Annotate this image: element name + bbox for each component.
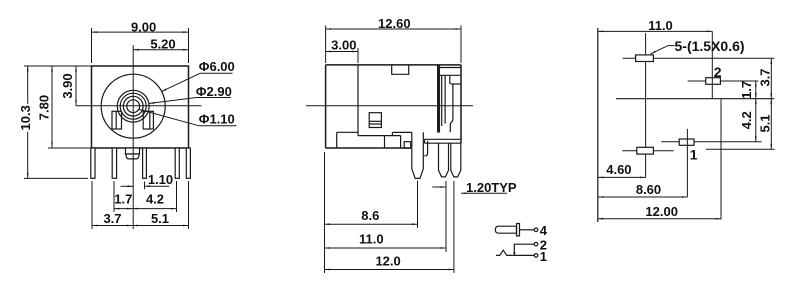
pad 2 row line [688,80,759,82]
dimension 11.0 layout [598,30,713,32]
svg-text:1.7: 1.7 [114,192,132,207]
svg-text:12.00: 12.00 [645,204,678,219]
dimension 10.3 [24,66,92,178]
dimension 7.80 [48,66,92,148]
inner ring circle [120,93,146,119]
dimension 1.10 (center to pin) [121,182,170,190]
svg-text:4: 4 [540,223,548,238]
dimension 12.0 [325,181,454,273]
small step block under ledge [404,142,411,149]
svg-text:4.60: 4.60 [606,162,631,177]
schematic pin 4 terminal circle [534,228,538,232]
side window [369,113,381,128]
centerline vertical front view [132,45,134,229]
text 10.3 rotated [18,104,33,132]
pad 2 column [711,31,713,98]
svg-text:3.7: 3.7 [103,211,121,226]
dimension 8.60 [598,196,688,198]
svg-text:5.1: 5.1 [151,211,169,226]
svg-text:3.00: 3.00 [331,37,356,52]
schematic center pin (bullet) [495,226,516,233]
schematic contact junction [513,253,516,256]
dimension 1.7 and 4.2 [114,181,177,212]
right contact tab [143,111,153,129]
dimension 3.7 and 5.1 [92,181,189,229]
barrel opening circle D6.00 [101,74,165,138]
pad 1 column [686,129,688,197]
layout left rail [597,28,599,222]
schematic pin 2 lead [514,244,534,253]
schematic pin 4 lead [520,229,535,231]
svg-text:5-(1.5X0.6): 5-(1.5X0.6) [675,38,745,54]
side pin 2 [439,143,449,177]
dimension chain 1.7 / 4.2 [755,81,757,142]
svg-text:1: 1 [690,147,698,163]
dimension 1.20TYP arrows [432,187,507,193]
terminal base lines [425,138,462,140]
pad 1 row line [661,141,761,143]
svg-text:1.20TYP: 1.20TYP [466,180,517,195]
left contact tab [112,111,122,129]
dimension 9.00 [92,28,189,63]
dimension 12.60 [326,26,461,64]
svg-text:4.2: 4.2 [739,111,754,129]
leader D6.00 [161,73,232,91]
leader D2.90 [149,98,231,104]
dimension 11.0 [325,181,447,252]
text 4.2 layout rotated [739,111,754,129]
dimension 3.90 [75,66,77,106]
back contact plate (thick) [437,65,440,132]
pad E row line [622,149,774,150]
svg-text:1: 1 [540,249,547,264]
svg-text:12.60: 12.60 [378,16,411,31]
text 1.7 layout rotated [739,81,754,99]
dimension 5.20 [133,49,188,51]
layout 12.00 extension vertical [720,99,722,220]
contact leaf beside center pin [424,141,427,156]
svg-text:8.6: 8.6 [361,208,379,223]
svg-text:1.10: 1.10 [148,172,173,187]
dimension chain 3.7 / 5.1 [770,58,772,149]
text 5.1 layout rotated [758,114,773,132]
layout center rail [616,98,774,100]
side pin 3 [451,143,461,177]
dimension 8.6 [325,152,418,273]
leader 5-(1.5X0.6) [651,46,675,54]
svg-text:3.7: 3.7 [758,68,773,86]
schematic pin 1 terminal circle [534,254,538,258]
jack body outline front view [92,66,189,148]
text 3.90 rotated [60,72,75,100]
body bottom ledge [337,131,358,133]
svg-text:10.3: 10.3 [18,105,33,130]
svg-text:11.0: 11.0 [359,232,384,247]
svg-text:2: 2 [714,64,722,80]
svg-text:Φ2.90: Φ2.90 [196,84,232,99]
front block divider [357,65,359,136]
pin 1 front [91,148,95,178]
pad E (bottom left) [637,147,654,154]
svg-text:Φ6.00: Φ6.00 [199,59,235,74]
centerline side view [306,105,473,107]
leader D1.10 [139,109,237,125]
svg-text:5.1: 5.1 [758,114,773,132]
center pin side view [412,132,424,178]
pad column vertical [645,33,647,177]
svg-text:5.20: 5.20 [150,36,175,51]
top notch [392,65,409,74]
back contact details [440,67,461,69]
pad 1 [679,139,694,145]
dimension 3.00 [326,48,358,63]
svg-text:Φ1.10: Φ1.10 [199,112,235,127]
pin 6 front [186,148,190,178]
inner sleeve circle D2.90 [117,90,149,122]
layout row A line [623,57,775,59]
svg-text:4.2: 4.2 [146,192,164,207]
svg-text:12.0: 12.0 [375,253,400,268]
svg-text:1.7: 1.7 [739,81,754,99]
svg-text:11.0: 11.0 [648,18,673,33]
pad 2 [706,78,721,85]
svg-text:8.60: 8.60 [636,182,661,197]
side body outline [326,65,461,148]
centerline horizontal front view [76,105,202,107]
pad A (top left) [636,55,654,62]
pin 4 front [143,148,147,178]
svg-text:9.00: 9.00 [131,19,156,34]
dimension 4.60 [598,176,646,178]
dimension 12.00 [598,218,721,220]
svg-text:3.90: 3.90 [60,73,75,98]
center pin circle D1.10 [127,100,140,113]
schematic pin 1 lead with switch bump [496,250,534,255]
text 3.7 layout rotated [758,68,773,86]
text 7.80 rotated [36,94,51,122]
inner ring circle 2 [123,96,143,116]
schematic washer bar [517,224,520,236]
center terminal boss below body [126,148,140,154]
pin 2 front [112,148,116,178]
pin 5 front [175,148,179,178]
schematic pin 2 terminal circle [534,242,538,246]
svg-text:7.80: 7.80 [36,95,51,120]
